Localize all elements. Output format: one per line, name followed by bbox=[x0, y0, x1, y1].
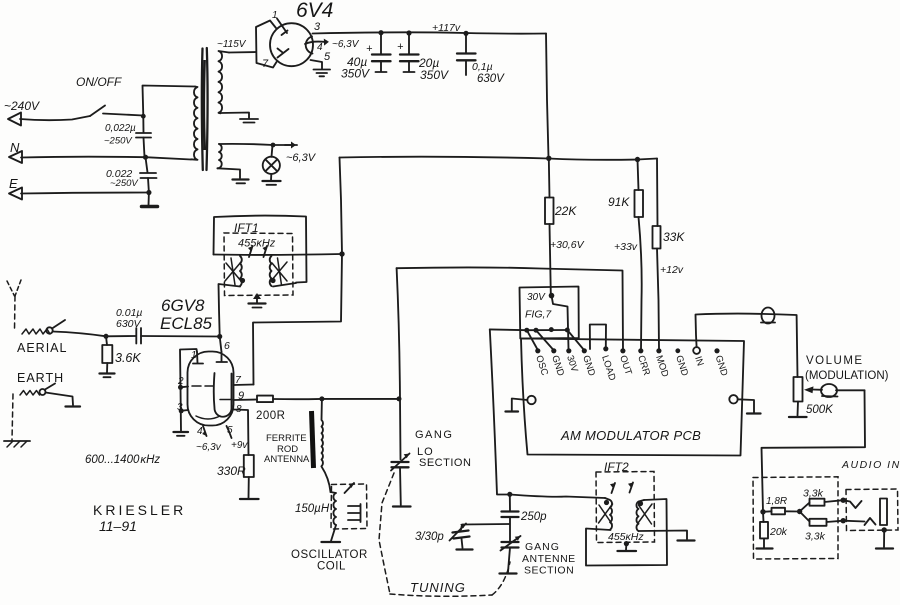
ground IFT2 right bbox=[678, 539, 695, 541]
ground heater winding bbox=[233, 178, 249, 180]
svg-text:91K: 91K bbox=[608, 195, 630, 209]
resistor 1,8R bbox=[772, 508, 786, 515]
node B+ 91k junction bbox=[635, 157, 640, 162]
svg-text:+9v: +9v bbox=[231, 440, 248, 451]
arrow E line bbox=[9, 188, 22, 200]
svg-text:3: 3 bbox=[314, 21, 321, 33]
svg-text:200R: 200R bbox=[256, 410, 286, 422]
wiper arrow volume bbox=[804, 386, 814, 393]
node IFT1 B+ junction bbox=[339, 251, 344, 256]
dashed tuning bottom bbox=[390, 594, 492, 596]
ground mains E bbox=[148, 193, 150, 206]
chassis bar gang ant bbox=[500, 572, 517, 574]
trimmer 3/30p bbox=[453, 531, 469, 533]
core X IFT2 right bbox=[638, 504, 652, 524]
mounting hole left bbox=[527, 396, 535, 404]
node 0,1u cap at rail bbox=[463, 31, 468, 36]
connector wiper bbox=[821, 384, 837, 397]
transformer IFT1 outer box bbox=[214, 216, 307, 283]
svg-text:3,3k: 3,3k bbox=[803, 488, 824, 500]
svg-text:5: 5 bbox=[324, 51, 331, 63]
node jack bottom bbox=[841, 518, 846, 523]
tab ground right bbox=[738, 399, 754, 412]
switch ON/OFF lever bbox=[90, 106, 105, 117]
svg-text:22K: 22K bbox=[554, 204, 577, 218]
svg-text:4: 4 bbox=[197, 426, 203, 437]
svg-text:COIL: COIL bbox=[317, 561, 346, 573]
node 250p junction bbox=[507, 492, 512, 497]
capacitor C 40u 350V bbox=[380, 33, 382, 54]
transformer T1 heater winding bbox=[218, 144, 222, 168]
svg-text:500K: 500K bbox=[806, 404, 834, 416]
svg-text:~115V: ~115V bbox=[217, 39, 247, 50]
chassis bar volume bbox=[789, 416, 807, 418]
svg-text:OSC: OSC bbox=[533, 354, 550, 377]
ground 3.6k bbox=[100, 372, 115, 374]
wire trimmer to ground bbox=[462, 539, 463, 549]
svg-text:350V: 350V bbox=[420, 68, 449, 82]
wire pin9 to 200R bbox=[234, 399, 258, 402]
arrow IFT2 left slug bbox=[612, 483, 616, 493]
resistor 22K bbox=[548, 158, 551, 197]
arrow IFT1 left slug bbox=[249, 246, 253, 257]
svg-text:LOAD: LOAD bbox=[599, 354, 617, 382]
inductor oscillator coil bbox=[331, 492, 337, 525]
wire node to coupling cap bbox=[106, 335, 136, 337]
ground trimmer bbox=[457, 548, 473, 550]
wire 30V zigzag to pin bbox=[552, 296, 569, 349]
node gang LO junction bbox=[397, 396, 402, 401]
svg-text:ECL85: ECL85 bbox=[160, 314, 213, 333]
svg-text:E: E bbox=[9, 176, 18, 191]
electrode grid dashes pin2 bbox=[192, 385, 213, 387]
arrow active line bbox=[8, 113, 21, 126]
node N/cap junction bbox=[143, 155, 148, 160]
ground 330R bbox=[240, 498, 259, 500]
arrow N line bbox=[9, 151, 22, 163]
wire left rail to ground bbox=[180, 387, 183, 431]
inductor IFT2 primary bbox=[605, 498, 612, 530]
ground 20k bbox=[757, 547, 773, 549]
node IFT2 primary dot bbox=[604, 500, 609, 505]
wire LOAD bracket bbox=[590, 325, 606, 350]
svg-text:~250V: ~250V bbox=[110, 178, 139, 189]
node jack sleeve bbox=[882, 527, 887, 532]
capacitor 250p bbox=[509, 495, 511, 512]
wire bus lead GND1 bbox=[536, 330, 554, 350]
svg-text:FERRITE: FERRITE bbox=[266, 433, 307, 444]
svg-text:33K: 33K bbox=[663, 230, 685, 244]
ground IFT1 center tap bbox=[256, 296, 258, 303]
svg-text:150µH: 150µH bbox=[295, 503, 330, 515]
resistor 330R bbox=[244, 455, 254, 477]
resistor 3,3k top bbox=[800, 503, 810, 512]
svg-text:3,3k: 3,3k bbox=[805, 531, 826, 543]
core X IFT1 left bbox=[225, 258, 241, 285]
svg-text:0,022µ: 0,022µ bbox=[105, 123, 136, 134]
svg-text:20k: 20k bbox=[769, 526, 788, 538]
node grid junction bbox=[217, 334, 222, 339]
capacitor 0.022 250V lower bbox=[146, 157, 148, 172]
resistor 200R bbox=[257, 396, 273, 403]
node jack top bbox=[841, 498, 846, 503]
pin 30V bbox=[566, 348, 571, 353]
wire 250p node to IFT2 bbox=[510, 495, 605, 499]
pin GND a bbox=[551, 348, 556, 353]
node heater junction bbox=[271, 143, 276, 148]
wire IN to volume top bbox=[696, 314, 798, 377]
svg-text:SECTION: SECTION bbox=[524, 565, 574, 577]
electrode heater arc bbox=[306, 37, 313, 54]
svg-text:6V4: 6V4 bbox=[296, 0, 333, 22]
svg-text:MOD: MOD bbox=[653, 354, 670, 379]
wire trimmer top to gang ant line bbox=[461, 524, 510, 530]
svg-text:6GV8: 6GV8 bbox=[161, 296, 205, 315]
svg-text:SECTION: SECTION bbox=[419, 457, 471, 469]
contact jack bottom bbox=[843, 518, 875, 525]
wire wiper loop to audio network bbox=[762, 390, 866, 511]
node bus dot 4 bbox=[565, 328, 570, 333]
svg-text:(MODULATION): (MODULATION) bbox=[805, 370, 889, 382]
wire pot bottom to chassis bbox=[797, 402, 800, 416]
svg-text:OUT: OUT bbox=[617, 354, 634, 377]
inductor osc feedback winding bbox=[348, 504, 361, 522]
wire HT secondary bottom to ground bbox=[221, 113, 250, 119]
wire ferrite to osc coil bbox=[322, 467, 331, 493]
svg-text:GND: GND bbox=[580, 354, 597, 378]
arrow osc coil slug bbox=[345, 483, 355, 493]
potentiometer 500K body bbox=[794, 377, 803, 402]
core X IFT2 left bbox=[599, 504, 613, 524]
mounting hole right bbox=[729, 395, 737, 403]
capacitor C 0,1u 630V bbox=[465, 33, 467, 53]
resistor 91K bbox=[638, 160, 639, 191]
svg-text:ANTENNA: ANTENNA bbox=[264, 454, 310, 465]
svg-text:FIG,7: FIG,7 bbox=[525, 309, 552, 321]
aerial socket coil bbox=[22, 329, 50, 334]
electrode plate box bbox=[214, 373, 232, 417]
svg-text:250p: 250p bbox=[520, 511, 547, 523]
svg-text:EARTH: EARTH bbox=[17, 371, 64, 385]
node audio input bbox=[760, 509, 765, 514]
node B+ 22k junction bbox=[546, 156, 551, 161]
svg-text:455κHz: 455κHz bbox=[238, 238, 276, 250]
arrow IFT1 right slug bbox=[264, 246, 268, 257]
pin IN bbox=[693, 347, 700, 354]
node E junction bbox=[146, 190, 151, 195]
wire osc coil to ground bbox=[331, 525, 336, 541]
wire grid junction to tube pin6 bbox=[220, 337, 222, 353]
svg-text:3.6K: 3.6K bbox=[115, 351, 141, 365]
wire IFT2 routing loop bbox=[586, 499, 667, 566]
jack dashed box bbox=[846, 489, 898, 531]
wire bus lead OSC bbox=[527, 330, 538, 350]
svg-text:GND: GND bbox=[549, 354, 566, 378]
wire B+ rail down to IFT1 node bbox=[340, 158, 343, 255]
svg-text:330R: 330R bbox=[217, 464, 246, 478]
node switch/cap junction bbox=[141, 114, 146, 119]
svg-text:KRIESLER: KRIESLER bbox=[93, 502, 186, 518]
ground oscillator coil bbox=[322, 541, 341, 543]
lamp dial bbox=[272, 145, 273, 157]
wire E line bbox=[21, 193, 149, 194]
svg-text:~6,3v: ~6,3v bbox=[196, 442, 222, 453]
tab ground left bbox=[512, 399, 528, 411]
wire bus lead GND2 bbox=[567, 330, 584, 350]
electrode grid dash pin9 bbox=[220, 399, 232, 401]
ground jack bbox=[876, 547, 893, 549]
svg-text:0,1µ: 0,1µ bbox=[472, 61, 493, 73]
box FIG.7 bbox=[520, 287, 579, 339]
ground IFT2 center bbox=[624, 541, 629, 546]
dashed earth chassis bbox=[12, 394, 13, 440]
wire HT secondary top to rectifier bbox=[229, 51, 256, 54]
oscillator coil dashed box bbox=[331, 484, 367, 529]
ground ECL85 rail bbox=[174, 431, 189, 433]
svg-text:GND: GND bbox=[673, 354, 690, 378]
svg-text:TUNING: TUNING bbox=[410, 580, 466, 595]
svg-text:+33v: +33v bbox=[614, 241, 638, 253]
svg-text:+12v: +12v bbox=[660, 264, 684, 276]
wire OUT loop top y270 bbox=[397, 267, 623, 350]
node bus dot 1 bbox=[524, 328, 529, 333]
chassis bar gang LO bbox=[393, 505, 411, 507]
wire B+ rail y157 bbox=[340, 157, 658, 160]
svg-text:11–91: 11–91 bbox=[99, 518, 137, 534]
wire OSC vertical from bus bbox=[490, 329, 510, 494]
dashed tuning link left bbox=[379, 473, 394, 594]
svg-text:~250V: ~250V bbox=[104, 136, 133, 147]
transformer T1 core bbox=[201, 49, 204, 171]
rectifier 6V4 base shield bbox=[256, 21, 277, 68]
ground lamp bbox=[270, 174, 272, 181]
wire gang LO vertical bbox=[397, 268, 401, 459]
svg-text:+30,6V: +30,6V bbox=[550, 239, 585, 251]
node 30V test point bbox=[549, 293, 555, 299]
ferrite rod bar bbox=[312, 411, 314, 468]
pin OSC bbox=[535, 348, 540, 353]
svg-text:1,8R: 1,8R bbox=[766, 496, 787, 507]
pin CRR bbox=[638, 348, 643, 353]
triode-pentode ECL85 envelope bbox=[188, 352, 234, 426]
ground HT secondary bbox=[240, 118, 258, 120]
svg-text:6: 6 bbox=[224, 340, 230, 352]
capacitor gang LO section bbox=[392, 461, 409, 463]
svg-text:AM MODULATOR PCB: AM MODULATOR PCB bbox=[560, 428, 701, 443]
svg-text:7: 7 bbox=[262, 58, 269, 70]
core X IFT1 right bbox=[271, 258, 287, 285]
svg-text:350V: 350V bbox=[341, 67, 370, 81]
pin 4 arrow ~6,3V tap bbox=[305, 42, 326, 44]
wire IFT1 bottom rail bbox=[219, 283, 297, 337]
svg-text:OSCILLATOR: OSCILLATOR bbox=[291, 549, 368, 561]
svg-text:VOLUME: VOLUME bbox=[806, 355, 864, 367]
svg-text:~240V: ~240V bbox=[4, 99, 40, 113]
wire B+ corner to 33k bbox=[656, 159, 659, 227]
electrode cathode arc bbox=[196, 416, 220, 419]
node IFT1 secondary dot bbox=[270, 278, 275, 283]
pin MOD bbox=[656, 348, 661, 353]
pcb AM MODULATOR box bbox=[521, 339, 744, 456]
svg-text:+: + bbox=[366, 43, 373, 55]
svg-text:1: 1 bbox=[191, 350, 197, 361]
svg-text:ANTENNE: ANTENNE bbox=[522, 553, 576, 565]
wire sleeve to ground bbox=[883, 530, 885, 547]
svg-text:+117v: +117v bbox=[432, 22, 461, 34]
capacitor C 20u 350V bbox=[408, 33, 410, 54]
jack sleeve bbox=[880, 499, 887, 526]
transformer T1 primary winding bbox=[191, 87, 198, 160]
pin OUT bbox=[620, 348, 625, 353]
wire earth to ground bbox=[46, 393, 74, 406]
node bus dot 2 bbox=[534, 328, 539, 333]
wire +117V rail corner down bbox=[546, 34, 549, 158]
node IFT1 primary dot bbox=[240, 278, 245, 283]
pin GND d bbox=[714, 348, 719, 353]
svg-text:AUDIO IN: AUDIO IN bbox=[841, 459, 900, 471]
electrode lower diode bbox=[278, 49, 289, 58]
pin GND b bbox=[582, 348, 587, 353]
wire node up to transformer primary top bbox=[143, 86, 196, 117]
pin LOAD bbox=[603, 346, 608, 351]
attenuator dashed box bbox=[753, 477, 838, 559]
transformer T1 HT secondary winding bbox=[219, 51, 230, 113]
svg-text:4: 4 bbox=[317, 42, 323, 53]
node 20u cap at rail bbox=[406, 30, 411, 35]
svg-text:30V: 30V bbox=[564, 354, 580, 374]
wire N line bbox=[21, 157, 191, 160]
inductor IFT1 primary winding bbox=[240, 256, 242, 286]
svg-text:GND: GND bbox=[713, 354, 730, 378]
svg-text:IN: IN bbox=[692, 355, 705, 368]
wire heater top with arrow ~6,3V bbox=[219, 144, 293, 145]
wire pin3 to +117V rail bbox=[313, 32, 547, 33]
transformer IFT2 dashed box bbox=[596, 472, 655, 543]
wire pin1 bracket to left rail bbox=[180, 349, 197, 387]
ground 6V4 cathode bbox=[314, 69, 331, 71]
node 200R ferrite junction bbox=[319, 396, 324, 401]
wire heater bottom to ground bbox=[218, 168, 241, 178]
rectifier 6V4 envelope bbox=[270, 23, 313, 66]
node IFT2 secondary dot bbox=[638, 501, 643, 506]
pin GND c bbox=[675, 348, 680, 353]
connector feed-through bbox=[762, 308, 775, 324]
earth socket coil bbox=[20, 391, 40, 396]
contact jack top bbox=[843, 500, 861, 508]
resistor 33K bbox=[653, 226, 661, 249]
capacitor gang antenne section bbox=[502, 541, 519, 543]
wire IFT2 secondary bottom to ground bbox=[639, 531, 687, 540]
svg-text:30V: 30V bbox=[527, 292, 546, 303]
wire aerial to 3.6k node bbox=[53, 332, 107, 337]
svg-text:600...1400 κHz: 600...1400 κHz bbox=[85, 454, 160, 466]
svg-text:CRR: CRR bbox=[635, 354, 652, 377]
inductor IFT2 secondary bbox=[636, 500, 644, 531]
arrow IFT2 right slug bbox=[630, 483, 634, 493]
svg-text:GANG: GANG bbox=[415, 429, 453, 441]
node attenuator mid bbox=[797, 509, 802, 514]
svg-text:GANG: GANG bbox=[525, 541, 560, 553]
svg-text:AERIAL: AERIAL bbox=[17, 341, 67, 355]
svg-text:630V: 630V bbox=[116, 318, 142, 330]
inductor ferrite winding bbox=[322, 399, 323, 466]
electrode pin6 grid tick bbox=[217, 352, 228, 362]
svg-text:630V: 630V bbox=[477, 73, 505, 85]
resistor 3,3k bottom bbox=[800, 512, 810, 522]
wire pin7 up to IFT1 node bbox=[253, 254, 342, 385]
svg-text:~6,3V: ~6,3V bbox=[332, 39, 360, 50]
svg-text:3/30p: 3/30p bbox=[415, 531, 444, 543]
svg-text:ON/OFF: ON/OFF bbox=[76, 75, 122, 89]
resistor 3.6K bbox=[106, 336, 107, 345]
wire switch to node bbox=[103, 114, 143, 116]
svg-text:+: + bbox=[397, 41, 404, 53]
ground earth lead bbox=[66, 405, 81, 407]
capacitor 0.01u 630V bbox=[135, 328, 137, 344]
wire IFT1 top bus y255 bbox=[214, 253, 343, 256]
wire active line bbox=[20, 116, 90, 120]
svg-text:~6,3V: ~6,3V bbox=[286, 152, 317, 164]
node aerial junction bbox=[104, 334, 109, 339]
dashed tuning link right bbox=[492, 562, 510, 595]
node bus dot 3 bbox=[549, 327, 554, 332]
transformer IFT1 inner dashed box bbox=[224, 233, 293, 296]
inductor IFT1 secondary winding bbox=[270, 256, 272, 286]
resistor 20k bbox=[762, 512, 765, 522]
capacitor 0,022u 250V upper bbox=[142, 116, 144, 132]
node 40u cap at rail bbox=[378, 30, 383, 35]
antenna symbol bbox=[7, 280, 21, 296]
wire OSC bus y330 bbox=[490, 328, 568, 331]
